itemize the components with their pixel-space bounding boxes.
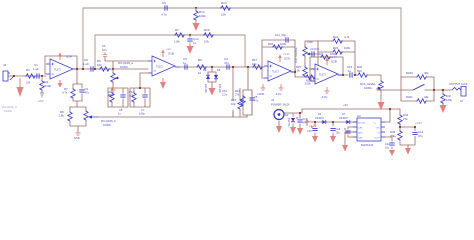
capacitor C7b after op2 xyxy=(183,57,187,70)
svg-text:47u: 47u xyxy=(418,134,423,138)
svg-text:TL072: TL072 xyxy=(156,66,163,69)
node C18 tap xyxy=(314,121,316,123)
svg-text:RV2 TREBLE: RV2 TREBLE xyxy=(294,47,298,63)
svg-text:BOOST: BOOST xyxy=(358,123,366,125)
wire op3 feedback loop xyxy=(262,40,295,78)
svg-text:C18: C18 xyxy=(307,130,312,133)
svg-text:27k: 27k xyxy=(235,93,240,97)
port gnd op3 xyxy=(257,84,266,96)
svg-text:100k: 100k xyxy=(446,98,452,102)
wire op1 feedback loop xyxy=(45,56,77,74)
diode D6 xyxy=(315,113,328,124)
svg-text:MAX1044: MAX1044 xyxy=(361,143,374,147)
potentiometer RV2 xyxy=(303,40,314,64)
svg-text:1N4148: 1N4148 xyxy=(218,84,221,93)
svg-text:TL072: TL072 xyxy=(272,71,279,74)
svg-text:D5: D5 xyxy=(217,68,221,72)
svg-text:-9.4V: -9.4V xyxy=(275,92,281,96)
resistor R23 tone mid xyxy=(332,46,351,54)
node rail B split xyxy=(189,34,191,36)
capacitor C12 xyxy=(222,89,228,97)
svg-text:GND: GND xyxy=(358,133,363,135)
svg-text:C7: C7 xyxy=(141,108,145,112)
svg-text:U1B: U1B xyxy=(168,52,174,56)
svg-text:100k: 100k xyxy=(280,42,287,46)
resistor R13 xyxy=(194,8,206,21)
svg-text:R23: R23 xyxy=(333,46,339,50)
svg-text:100p: 100p xyxy=(139,112,145,116)
wire op1 gain leg xyxy=(70,69,86,131)
wire rail A top xyxy=(83,8,401,77)
ground C17 xyxy=(297,128,303,135)
svg-text:CAP-: CAP- xyxy=(358,137,363,140)
capacitor C18 xyxy=(307,126,318,133)
wire tone top resistor run xyxy=(318,41,355,52)
svg-text:4.7u: 4.7u xyxy=(161,13,167,17)
svg-text:47u: 47u xyxy=(85,91,90,95)
svg-text:R20: R20 xyxy=(268,42,274,46)
node rail B tap xyxy=(94,68,96,70)
op-amp U2B xyxy=(311,60,343,85)
resistor R26 bottom xyxy=(305,75,316,86)
node rail A split xyxy=(195,7,197,9)
svg-text:R041: R041 xyxy=(406,95,413,99)
wire op2 plus input riser xyxy=(105,61,148,69)
node op3 out xyxy=(294,71,296,73)
switch arm SW1 xyxy=(413,85,424,91)
svg-text:1M: 1M xyxy=(26,81,31,85)
svg-text:R10: R10 xyxy=(204,28,210,32)
svg-text:100Kk: 100Kk xyxy=(364,86,373,90)
svg-text:+GND: +GND xyxy=(257,92,264,96)
svg-text:100k: 100k xyxy=(305,82,311,86)
capacitor C8 in box1 xyxy=(118,88,126,116)
power U1A xyxy=(58,52,62,60)
resistor R9 xyxy=(97,59,110,71)
svg-text:1N4007: 1N4007 xyxy=(315,117,324,120)
svg-text:40k: 40k xyxy=(108,94,113,98)
ground U3 xyxy=(342,145,348,152)
capacitor C17 xyxy=(296,117,308,125)
svg-text:100k: 100k xyxy=(307,40,313,44)
svg-text:27k: 27k xyxy=(390,134,395,138)
svg-text:46k: 46k xyxy=(424,71,429,75)
svg-text:R27: R27 xyxy=(318,52,324,56)
resistor R40 bypass top xyxy=(406,71,429,79)
node bias xyxy=(399,126,401,128)
svg-text:1u: 1u xyxy=(183,61,187,65)
svg-text:+9V: +9V xyxy=(343,103,348,107)
resistor R25 xyxy=(295,65,307,77)
vminus U1A xyxy=(58,80,63,88)
svg-text:1u: 1u xyxy=(193,41,197,45)
capacitor C19 xyxy=(330,128,340,135)
svg-text:U3: U3 xyxy=(357,114,361,118)
svg-text:1 uF: 1 uF xyxy=(83,62,89,66)
svg-text:10k: 10k xyxy=(231,102,236,106)
ground pot a xyxy=(108,88,116,97)
capacitor C20 pump xyxy=(344,128,351,133)
node after C1 xyxy=(41,75,43,77)
capacitor C22 bias xyxy=(412,130,423,140)
wire op2 inverting leg xyxy=(140,73,148,88)
wire max1044 cap side xyxy=(345,122,392,149)
svg-text:OUTPUT JACK: OUTPUT JACK xyxy=(449,82,468,86)
svg-text:1.8k: 1.8k xyxy=(295,69,301,73)
svg-text:VOUT: VOUT xyxy=(374,138,380,140)
svg-text:C11_50p: C11_50p xyxy=(275,33,287,37)
resistor R10 rail B xyxy=(203,28,214,44)
node pot a tap xyxy=(112,68,114,70)
ground clip diodes xyxy=(209,87,216,96)
wire feedback box2 frame xyxy=(130,88,150,107)
power jack J3 xyxy=(274,110,285,120)
svg-text:47n: 47n xyxy=(315,47,320,51)
op-amp U1A xyxy=(46,55,77,80)
wire bias divider frame xyxy=(400,124,415,148)
svg-text:+4.5V: +4.5V xyxy=(415,121,422,125)
wire rail B xyxy=(95,35,245,69)
resistor R7 rail B xyxy=(174,28,185,44)
ground R13 xyxy=(193,20,200,31)
ground bias xyxy=(405,148,411,155)
svg-text:R7: R7 xyxy=(175,28,179,32)
svg-text:27k: 27k xyxy=(403,117,408,121)
resistor R41 bypass bottom xyxy=(406,95,429,103)
resistor R2 xyxy=(40,76,52,91)
ground R42 xyxy=(440,105,447,113)
svg-text:D4: D4 xyxy=(203,68,207,72)
input jack J2 xyxy=(3,63,14,81)
resistor R8 xyxy=(59,107,73,126)
svg-text:U1A: U1A xyxy=(66,55,72,59)
capacitor C13m xyxy=(249,90,258,115)
svg-text:100Kk: 100Kk xyxy=(4,109,13,113)
svg-text:CAP+: CAP+ xyxy=(358,127,364,130)
capacitor C9 rail A xyxy=(161,1,167,17)
svg-text:510k: 510k xyxy=(45,84,52,88)
power U2A xyxy=(278,52,290,62)
svg-text:+9.2V: +9.2V xyxy=(283,52,290,56)
svg-text:1N4148: 1N4148 xyxy=(204,84,207,93)
node box riser xyxy=(139,87,141,89)
ground RV4 xyxy=(378,99,385,110)
wire op2 output line xyxy=(180,66,264,68)
node op1 out xyxy=(76,68,78,70)
svg-text:D7: D7 xyxy=(342,113,346,116)
capacitor C14 xyxy=(310,47,320,57)
svg-text:1N4742: 1N4742 xyxy=(287,118,290,127)
wire tone mid resistor run xyxy=(318,52,355,75)
op-amp U2A xyxy=(264,57,295,82)
potentiometer RV4 LEVEL xyxy=(360,80,384,99)
svg-text:10u: 10u xyxy=(336,132,341,135)
wire op3 out to tone xyxy=(291,69,315,81)
node op4 out xyxy=(342,74,344,76)
wire to output jack xyxy=(442,90,444,105)
op-amp U1B xyxy=(148,52,180,77)
node tone join xyxy=(354,74,356,76)
wire bypass box frame xyxy=(401,77,434,101)
node input sleeve junction xyxy=(13,75,15,77)
svg-text:R42: R42 xyxy=(446,94,451,98)
ground zener xyxy=(290,127,296,134)
svg-text:R11: R11 xyxy=(108,90,113,94)
svg-text:4.7k: 4.7k xyxy=(344,35,350,39)
svg-text:10k: 10k xyxy=(204,40,209,44)
svg-text:OSC: OSC xyxy=(376,128,381,130)
svg-text:47u: 47u xyxy=(254,99,259,103)
power U2B xyxy=(325,55,337,65)
svg-text:GND: GND xyxy=(38,100,44,103)
svg-text:-9.4V: -9.4V xyxy=(321,95,327,99)
svg-text:44k: 44k xyxy=(424,95,429,99)
vminus U1B xyxy=(160,78,166,89)
resistor R3 xyxy=(62,84,75,101)
svg-text:C8: C8 xyxy=(119,108,123,112)
wire op4 feedback loop xyxy=(310,57,343,81)
capacitor C21 vout xyxy=(385,143,395,150)
capacitor C5 xyxy=(83,58,93,72)
svg-text:+9V: +9V xyxy=(166,47,171,51)
wire power jack net xyxy=(279,113,300,128)
capacitor C7 in box2 xyxy=(139,88,148,116)
IC U3 MAX1044 xyxy=(353,114,385,147)
svg-text:10u: 10u xyxy=(385,147,390,150)
ground C18 xyxy=(312,136,318,143)
wire clip diode stem xyxy=(208,67,216,87)
port vminus op3 xyxy=(275,84,284,96)
svg-text:1.8k: 1.8k xyxy=(174,40,180,44)
diode D5 xyxy=(214,68,221,93)
resistor R15 xyxy=(231,88,242,117)
svg-text:C12: C12 xyxy=(222,89,227,93)
svg-text:1N4007: 1N4007 xyxy=(339,117,348,120)
capacitor C16 xyxy=(347,65,353,78)
svg-text:10n: 10n xyxy=(102,48,107,52)
svg-text:100Kk: 100Kk xyxy=(120,65,129,69)
node switch out xyxy=(433,89,435,91)
diode D4 xyxy=(203,68,210,93)
svg-text:10k: 10k xyxy=(129,94,134,98)
resistor R45 xyxy=(390,130,402,141)
output jack J4 xyxy=(452,87,466,104)
port vminus op4 xyxy=(321,87,330,99)
resistor R42 pulldown xyxy=(441,93,453,104)
node mid riser xyxy=(232,66,234,68)
zener D1 xyxy=(285,114,295,127)
svg-text:U2B: U2B xyxy=(331,60,337,64)
svg-text:+9.2V: +9.2V xyxy=(309,124,317,128)
wire op1 output line xyxy=(77,68,148,70)
svg-text:R14: R14 xyxy=(221,1,227,5)
wire midlow box xyxy=(243,90,252,117)
svg-text:R040: R040 xyxy=(406,71,413,75)
power U1B xyxy=(161,47,171,57)
wire tone pot frame xyxy=(295,41,318,77)
node power rail xyxy=(299,112,301,114)
capacitor C6 label xyxy=(102,44,107,61)
svg-text:100k: 100k xyxy=(330,52,337,56)
node rail A tap xyxy=(82,68,84,70)
svg-text:100Kk: 100Kk xyxy=(103,123,112,127)
ground pot b xyxy=(74,131,81,140)
capacitor C13 feedback xyxy=(275,33,288,43)
resistor R20 feedback xyxy=(268,42,287,49)
port +9.2V xyxy=(305,118,316,128)
svg-text:R16: R16 xyxy=(235,89,240,93)
svg-text:J2: J2 xyxy=(3,63,7,67)
svg-text:J4: J4 xyxy=(460,99,463,103)
wire pot b wiper long run xyxy=(98,112,247,117)
label J3 power jack xyxy=(271,98,290,107)
resistor R17 xyxy=(252,58,263,69)
resistor R44 xyxy=(398,112,409,125)
svg-text:1 uF: 1 uF xyxy=(33,67,39,71)
potentiometer RV_Q04S_a xyxy=(111,61,134,88)
wire midlow riser xyxy=(233,67,248,117)
ground C19 xyxy=(330,136,336,143)
ground chassis mark xyxy=(38,90,44,103)
resistor R11 in box1 xyxy=(108,88,114,107)
resistor R16 xyxy=(235,89,245,106)
svg-text:R22: R22 xyxy=(333,35,339,39)
wire op4 output chain xyxy=(338,75,381,80)
capacitor C10 xyxy=(187,35,198,45)
ground power jack xyxy=(276,126,282,133)
svg-text:R1: R1 xyxy=(26,68,30,72)
potentiometer RV_Q04S_b xyxy=(84,107,117,127)
capacitor C2 xyxy=(79,84,89,101)
svg-text:R12: R12 xyxy=(129,90,134,94)
svg-text:D4: D4 xyxy=(285,114,289,117)
svg-text:GND: GND xyxy=(74,136,80,140)
node v+ riser xyxy=(389,108,391,110)
resistor R22 tone top xyxy=(332,35,350,43)
resistor R27 op4 feedback xyxy=(318,52,337,59)
wire plus9 top rail xyxy=(302,109,400,122)
svg-text:TL072: TL072 xyxy=(319,74,326,77)
svg-text:1k: 1k xyxy=(198,71,202,75)
resistor R14 xyxy=(220,1,231,17)
svg-text:J3: J3 xyxy=(271,98,274,102)
svg-text:R5: R5 xyxy=(198,58,202,62)
svg-text:U2A: U2A xyxy=(284,57,290,61)
svg-text:R25: R25 xyxy=(296,65,301,69)
wire feedback box1 frame xyxy=(108,88,128,107)
net label RV_Q04S_b faint xyxy=(2,105,17,113)
svg-text:C9: C9 xyxy=(162,1,166,5)
ground C21 xyxy=(389,150,395,156)
svg-text:10k: 10k xyxy=(221,13,226,17)
node clip xyxy=(211,66,213,68)
svg-text:100k: 100k xyxy=(199,14,206,18)
svg-text:D6: D6 xyxy=(318,113,322,116)
node bias cap xyxy=(414,126,416,128)
resistor R5 xyxy=(196,58,207,75)
node after D6 xyxy=(332,121,334,123)
capacitor C4 xyxy=(224,57,229,70)
svg-text:POWER JACK: POWER JACK xyxy=(271,103,290,107)
resistor R1 xyxy=(25,68,36,85)
resistor R12 in box2 xyxy=(129,88,136,107)
svg-text:10k: 10k xyxy=(252,62,257,66)
diode D7 xyxy=(339,113,352,124)
svg-text:590: 590 xyxy=(357,69,362,73)
svg-text:TL072: TL072 xyxy=(54,69,61,72)
wire charge pump lower run xyxy=(305,119,357,136)
svg-text:1.8k: 1.8k xyxy=(59,114,65,118)
wire level wiper to switch xyxy=(384,89,452,91)
svg-text:47n: 47n xyxy=(224,61,229,65)
svg-text:1n: 1n xyxy=(118,112,121,116)
svg-text:100k: 100k xyxy=(344,46,351,50)
svg-text:4.7k: 4.7k xyxy=(62,91,68,95)
svg-text:2.2n: 2.2n xyxy=(222,93,228,97)
ground C10 xyxy=(187,43,194,55)
svg-text:1u: 1u xyxy=(348,69,352,73)
capacitor C1 xyxy=(33,63,39,79)
ground input xyxy=(17,78,24,97)
svg-text:10k: 10k xyxy=(97,63,102,67)
resistor R30 xyxy=(357,65,368,77)
wire input line xyxy=(8,75,46,77)
